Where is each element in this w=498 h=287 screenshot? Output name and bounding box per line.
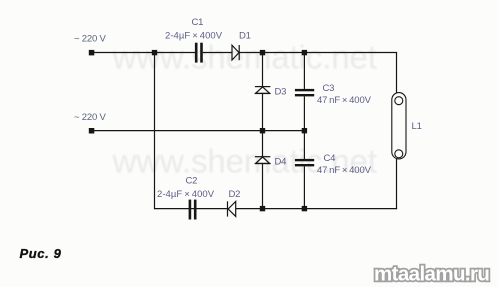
wire bottom rail right segment (236, 208, 397, 210)
node junction middle C column (302, 128, 307, 133)
svg-text:C3: C3 (323, 83, 335, 94)
svg-text:47 nF × 400V: 47 nF × 400V (317, 95, 372, 106)
svg-text:D1: D1 (239, 31, 251, 42)
wire C4 column upper (303, 131, 305, 159)
svg-text:~ 220 V: ~ 220 V (74, 33, 106, 44)
wire bottom rail D2 to C2 (189, 208, 228, 210)
svg-text:C1: C1 (192, 17, 204, 28)
wire left vertical (154, 53, 156, 210)
svg-text:2-4µF × 400V: 2-4µF × 400V (165, 31, 223, 42)
wire lamp bottom to bottom rail (396, 159, 398, 209)
capacitor C4 plates (295, 159, 314, 161)
svg-text:47 nF × 400V: 47 nF × 400V (317, 165, 372, 176)
node junction bottom C column (302, 206, 307, 211)
wire D4 to bottom rail (262, 164, 264, 209)
wire top rail C1 to D1 (203, 52, 232, 54)
wire C4 to bottom rail (303, 166, 305, 208)
wire top rail D1 to right corner (239, 52, 397, 54)
diode D1 (232, 45, 239, 60)
svg-text:2-4µF × 400V: 2-4µF × 400V (157, 189, 215, 200)
svg-text:D4: D4 (275, 157, 287, 168)
node junction top C column (302, 50, 307, 55)
svg-text:~ 220 V: ~ 220 V (74, 112, 106, 123)
wire D4 column upper (262, 131, 264, 157)
node junction top D column (260, 50, 265, 55)
node junction middle D column (260, 128, 265, 133)
diode D3 (255, 87, 271, 94)
wire C3 column upper (303, 53, 305, 90)
diode D4 (255, 157, 271, 164)
svg-text:Рис. 9: Рис. 9 (20, 246, 62, 261)
capacitor C2 plates (189, 200, 192, 220)
svg-text:C4: C4 (324, 153, 336, 164)
svg-text:D3: D3 (275, 86, 287, 97)
wire bottom rail left segment (154, 208, 189, 210)
svg-text:D2: D2 (229, 189, 241, 200)
capacitor C1 plates (195, 43, 198, 63)
svg-text:www.shematic.net: www.shematic.net (112, 38, 377, 75)
node junction top-left (152, 50, 157, 55)
svg-text:C2: C2 (186, 175, 198, 186)
terminal input 2 (89, 128, 95, 134)
svg-text:mtaalamu.ru: mtaalamu.ru (374, 263, 489, 286)
diode D2 (228, 201, 236, 216)
node junction bottom D column (260, 206, 265, 211)
wire top rail left segment (93, 52, 195, 54)
wire C3 to middle rail (303, 96, 305, 130)
terminal input 1 (89, 50, 95, 56)
svg-text:L1: L1 (412, 121, 422, 132)
wire D3 column upper (262, 53, 264, 87)
wire right vertical to lamp top (396, 52, 398, 93)
capacitor C3 plates (295, 89, 314, 91)
lamp L1 tube (392, 93, 406, 159)
wire D3 to middle rail (262, 94, 264, 131)
wire middle rail (93, 130, 304, 132)
